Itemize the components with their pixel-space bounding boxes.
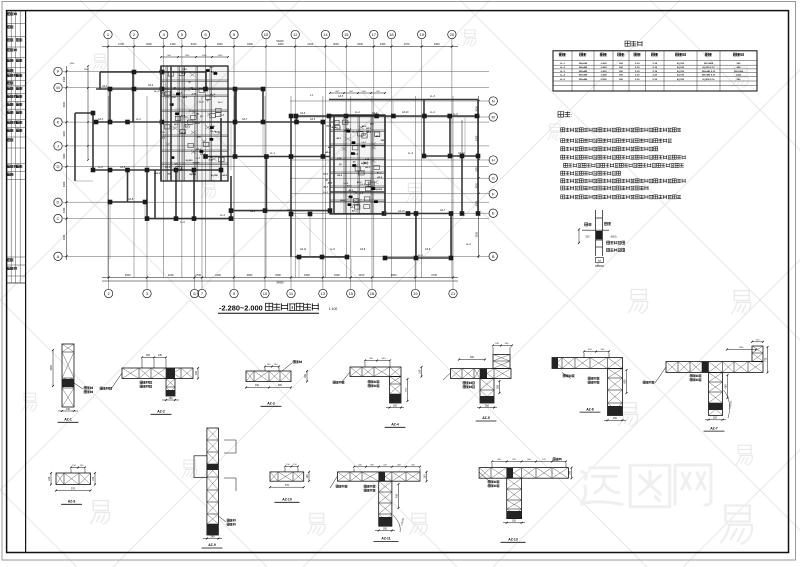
svg-text:-0.030: -0.030 [600,67,607,69]
svg-text:LL-1: LL-1 [210,93,215,96]
svg-text:-0.030: -0.030 [600,75,607,77]
svg-text:LL-2: LL-2 [355,111,360,114]
svg-text:19: 19 [413,291,418,296]
svg-text:2400: 2400 [380,42,386,46]
svg-text:AZ-1: AZ-1 [350,206,356,209]
svg-text:2700: 2700 [431,273,437,277]
svg-text:17: 17 [372,32,377,37]
left stair core [161,66,228,181]
svg-text:LL-2: LL-2 [560,67,565,69]
svg-text:2-18: 2-18 [653,63,658,65]
svg-text:LL-3: LL-3 [408,152,413,155]
svg-text:AZ-8: AZ-8 [360,248,366,251]
svg-text:AZ-2: AZ-2 [148,84,154,87]
svg-text:160: 160 [306,474,309,479]
wall lap detail [582,210,609,256]
svg-text:AZ-3: AZ-3 [267,402,275,406]
svg-text:20: 20 [450,32,455,37]
svg-text:AZ-6: AZ-6 [586,407,594,411]
svg-text:LL-4: LL-4 [430,111,435,114]
svg-text:3300: 3300 [434,42,440,46]
svg-text:G: G [56,164,59,169]
top dimension line [102,46,458,48]
detail AZ-2 [122,368,193,379]
svg-text:LL-5: LL-5 [330,248,335,251]
svg-text:AZ-5: AZ-5 [338,95,344,98]
watermark yi glyphs [173,108,191,130]
svg-text:3300: 3300 [217,42,223,46]
detail AZ-9 [207,428,219,535]
right dimension line [478,96,480,258]
svg-text:2-20: 2-20 [635,75,640,77]
svg-text:2-18: 2-18 [635,63,640,65]
svg-text:160: 160 [304,374,307,379]
svg-text:1200: 1200 [736,75,742,77]
svg-text:AZ-8: AZ-8 [68,500,76,504]
detail AZ-4 [350,367,401,377]
lintel table [553,51,757,91]
svg-text:AZ-4: AZ-4 [165,166,171,169]
svg-text:-2.280~2.000: -2.280~2.000 [219,304,263,313]
svg-text:-0.030: -0.030 [600,63,607,65]
svg-text:AZ-5: AZ-5 [482,416,490,420]
svg-text:M: M [56,85,59,90]
svg-text:160: 160 [569,470,572,475]
svg-text:570: 570 [285,484,290,487]
svg-text:2-16: 2-16 [635,67,640,69]
plan horizontal grid lines [63,71,489,256]
svg-text:3300: 3300 [63,207,66,213]
svg-text:-0.030: -0.030 [600,79,607,81]
svg-text::: : [571,113,572,119]
shear walls [100,71,206,73]
svg-text:8@100: 8@100 [677,75,685,77]
svg-text:AZ-3: AZ-3 [287,209,293,212]
detail AZ-11 [338,472,421,481]
core secondary dims [161,56,228,58]
svg-text:10: 10 [263,291,268,296]
svg-text:AZ-2: AZ-2 [372,112,378,115]
svg-text:C: C [57,216,60,221]
svg-text:460: 460 [725,384,728,389]
svg-text:AZ-10: AZ-10 [282,498,292,502]
svg-text:LL-1: LL-1 [270,152,275,155]
svg-text:1800: 1800 [304,273,310,277]
svg-text:3300: 3300 [63,101,66,107]
svg-text:AZ-9: AZ-9 [208,543,216,547]
svg-text:1:100: 1:100 [329,307,338,311]
svg-text:-0.030: -0.030 [600,71,607,73]
watermark big text yuntuwang [582,468,622,504]
svg-text:8@200: 8@200 [186,160,193,162]
svg-text:8@200: 8@200 [211,175,218,177]
svg-text:8@200: 8@200 [193,163,200,165]
svg-text:3300: 3300 [63,131,66,137]
svg-text:15: 15 [344,32,349,37]
svg-text:250x500: 250x500 [579,63,588,65]
svg-text:3300: 3300 [63,153,66,159]
svg-text:AZ-1: AZ-1 [102,85,108,88]
svg-text:160: 160 [169,397,174,400]
svg-text:G: G [492,176,495,181]
svg-text:AZ-11: AZ-11 [381,537,390,541]
svg-text:LL-2: LL-2 [466,243,471,246]
svg-text:LL-4: LL-4 [560,74,565,77]
svg-text:350: 350 [497,384,500,389]
detail AZ-13 [479,468,568,479]
svg-text:K: K [57,120,60,125]
svg-text:3300: 3300 [357,42,363,46]
svg-text:2700: 2700 [195,273,201,277]
svg-text:150 1200: 150 1200 [734,71,744,73]
svg-text:240: 240 [92,476,95,481]
svg-text:3000: 3000 [247,273,253,277]
svg-text:600: 600 [470,356,475,359]
svg-text:2700: 2700 [118,42,124,46]
notes heading [558,112,564,118]
svg-text:3300: 3300 [275,273,281,277]
svg-text:200: 200 [485,404,490,407]
svg-text:4500: 4500 [391,273,397,277]
svg-text:400: 400 [255,384,260,387]
svg-text:J: J [57,143,59,148]
svg-text:200: 200 [613,417,618,420]
detail AZ-1 [62,344,74,407]
svg-text:LL-4: LL-4 [220,214,225,217]
svg-text:LL-3: LL-3 [560,71,565,73]
svg-text:LL-1: LL-1 [560,63,565,65]
svg-text:A: A [57,254,60,259]
title block text marks [8,13,11,16]
svg-text:N: N [492,99,495,104]
svg-text:200: 200 [393,404,398,407]
svg-text:570: 570 [71,487,76,490]
svg-text:AZ-3: AZ-3 [98,118,104,121]
svg-text:3000: 3000 [475,231,478,237]
svg-text:AZ-7: AZ-7 [440,209,446,212]
svg-text:1100: 1100 [739,347,744,349]
svg-text:8@200: 8@200 [189,174,196,176]
svg-text:200x400: 200x400 [579,66,588,69]
svg-text:2-16: 2-16 [653,79,658,81]
svg-text:240: 240 [158,354,163,357]
svg-text:200: 200 [195,371,198,376]
svg-text:250 2400: 250 2400 [704,62,714,65]
svg-text:240: 240 [211,535,216,538]
svg-text:LL-1: LL-1 [418,254,423,257]
svg-text:AZ-10: AZ-10 [402,111,409,114]
svg-text:E: E [492,211,495,216]
svg-text:(600): (600) [611,235,617,238]
svg-text:2700: 2700 [404,42,410,46]
svg-text:AZ-13: AZ-13 [398,210,405,213]
svg-text:160: 160 [419,369,422,374]
svg-text:2-16: 2-16 [635,79,640,81]
notes lines [561,128,565,132]
svg-text:250x450: 250x450 [579,70,588,73]
svg-text:160: 160 [424,474,427,479]
svg-text:P: P [57,69,60,74]
svg-text:400: 400 [146,354,151,357]
svg-text:B: B [492,254,495,259]
column squares [108,87,113,92]
svg-text:200x400: 200x400 [579,78,588,81]
svg-text:8@200: 8@200 [375,189,382,191]
detail AZ-8 [56,473,91,485]
secondary slab lines [75,100,465,278]
svg-text:200: 200 [512,520,517,523]
svg-text:LL-2: LL-2 [136,118,141,121]
svg-text:250x450 2-12: 250x450 2-12 [702,70,716,73]
svg-text:LL-2: LL-2 [98,166,103,169]
top axis circles [104,30,112,38]
svg-text:2100: 2100 [170,42,176,46]
svg-text:8@100: 8@100 [677,79,685,81]
svg-text:3300: 3300 [63,181,66,187]
svg-text:2100: 2100 [359,273,365,277]
svg-text:13: 13 [321,291,326,296]
svg-text:4200: 4200 [168,273,174,277]
left dimension line [66,66,68,260]
left axis circles [54,67,62,75]
perimeter extra dims [87,66,89,160]
right stair core [330,115,385,214]
svg-text:3300: 3300 [146,42,152,46]
svg-text:10: 10 [264,32,269,37]
svg-text:4500: 4500 [125,273,131,277]
svg-text:2100: 2100 [307,42,313,46]
right axis circles [489,97,497,105]
svg-text:200: 200 [713,417,718,420]
svg-text:AZ-8: AZ-8 [128,198,134,201]
svg-text:AZ-1: AZ-1 [64,418,72,422]
svg-text:AZ-4: AZ-4 [391,423,399,427]
table header [559,53,562,56]
svg-text:240: 240 [66,408,71,411]
svg-text:2-20: 2-20 [653,75,658,77]
bottom dimension line [102,277,458,279]
svg-text:LL-5: LL-5 [560,79,565,81]
svg-text:19: 19 [419,32,424,37]
svg-text:8@150 2-10: 8@150 2-10 [703,67,716,69]
detail AZ-6 [552,358,623,369]
svg-text:250x400 2-10: 250x400 2-10 [702,74,716,77]
svg-text:2-16: 2-16 [653,67,658,69]
plan vertical grid lines [108,39,453,289]
svg-text:2-18: 2-18 [653,71,658,73]
svg-text:AZ-7: AZ-7 [710,426,718,430]
svg-text:15: 15 [349,291,354,296]
svg-text:200: 200 [383,527,388,530]
detail AZ-7 [666,362,763,373]
svg-text:450: 450 [396,493,399,498]
svg-text:LL-3: LL-3 [430,95,435,98]
detail AZ-10 [270,472,304,481]
svg-text:AZ-2: AZ-2 [157,410,165,414]
svg-text:8@100: 8@100 [677,71,685,73]
svg-text:5100: 5100 [191,42,197,46]
detail AZ-5 [451,369,512,379]
svg-text:8@200 2-10: 8@200 2-10 [703,79,716,81]
wall lap detail dims [578,229,580,243]
svg-text:2400: 2400 [215,273,221,277]
svg-text:LL-6: LL-6 [453,113,458,116]
svg-text:800: 800 [278,384,283,387]
title block strip [25,11,27,553]
svg-text:8@100: 8@100 [677,67,685,69]
svg-text:1800: 1800 [247,42,253,46]
svg-text:3300: 3300 [63,234,66,240]
svg-text:AZ-6: AZ-6 [250,210,256,213]
svg-text:2-18: 2-18 [635,71,640,73]
svg-text:3300: 3300 [334,273,340,277]
svg-text:AZ-5: AZ-5 [120,166,126,169]
svg-text:AZ-9: AZ-9 [300,112,306,115]
svg-text:250x400: 250x400 [579,74,588,77]
svg-text:AZ-7: AZ-7 [242,118,248,121]
svg-text:D: D [57,200,60,205]
svg-text:770: 770 [765,357,768,362]
svg-text:14: 14 [323,32,328,37]
svg-text:H: H [492,158,495,163]
svg-text:54900: 54900 [276,39,284,43]
svg-text:AZ-6: AZ-6 [310,118,316,121]
svg-text:240: 240 [48,476,51,481]
svg-text:8@100: 8@100 [677,63,685,65]
svg-text:AZ-12: AZ-12 [458,152,465,155]
svg-text:200: 200 [585,236,590,239]
lintel table title [625,41,630,46]
svg-text:AZ-11: AZ-11 [300,248,307,251]
svg-text:1800: 1800 [50,365,53,371]
svg-text:21: 21 [451,291,456,296]
svg-text:12: 12 [293,32,298,37]
svg-text:18: 18 [389,32,394,37]
svg-text:3300: 3300 [63,76,66,82]
svg-text:16: 16 [370,291,375,296]
bottom axis circles [104,289,112,297]
svg-text:M: M [492,115,495,120]
svg-text:650: 650 [624,379,627,384]
svg-text:AZ-13: AZ-13 [508,538,518,542]
svg-text:AZ-2: AZ-2 [200,153,206,156]
svg-text:3000: 3000 [333,42,339,46]
svg-text:AZ-9: AZ-9 [425,248,431,251]
detail AZ-3 [246,371,291,382]
svg-text:LL-6: LL-6 [180,221,185,224]
